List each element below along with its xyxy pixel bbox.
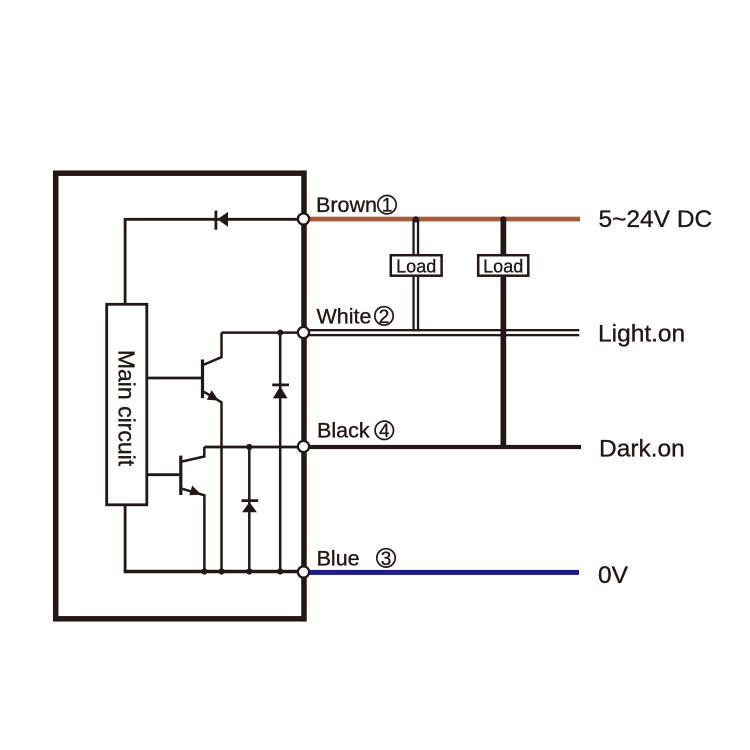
diode D1 triangle (pointing up)	[273, 386, 288, 398]
wire: load 1 lead (double line) left stroke lower	[412, 277, 414, 331]
transistor Q1 base bar	[201, 360, 204, 399]
wire: Q2 collector to Black terminal	[204, 446, 303, 449]
wire: black external Dark.on	[304, 445, 582, 449]
junction dot on 0V rail at D2	[246, 568, 252, 574]
junction dot on 0V rail at Q1 emitter	[218, 568, 224, 574]
outer sensor enclosure box	[56, 173, 304, 619]
wire: load 1 lead (double line) right stroke lower	[417, 277, 419, 331]
diode D2 triangle (pointing up)	[242, 502, 257, 512]
svg-text:Light.on: Light.on	[598, 321, 685, 348]
terminal 1 (Brown)	[298, 213, 309, 224]
wire: brown external 5-24V DC	[304, 217, 581, 222]
load L2 box	[478, 255, 528, 276]
load L1 box	[391, 255, 442, 276]
svg-text:Main circuit: Main circuit	[114, 350, 140, 467]
diode D1 wire (White output to 0V rail)	[279, 333, 282, 572]
terminal 2 (White)	[298, 327, 309, 338]
junction dot on 0V rail at Q2 emitter	[201, 568, 207, 574]
terminal 3 (Blue)	[298, 566, 309, 577]
wire: load 2 lead lower	[501, 277, 507, 447]
svg-text:0V: 0V	[598, 562, 629, 589]
junction dot on 0V rail at D1	[277, 568, 283, 574]
transistor Q2 base bar	[179, 456, 182, 495]
junction dot on black line at D2	[246, 444, 252, 450]
svg-text:White: White	[317, 304, 372, 328]
diode D3 triangle (pointing left)	[217, 212, 228, 227]
wire: load 1 lead (double line) left stroke upper	[412, 219, 414, 254]
transistor Q2 emitter	[182, 489, 204, 572]
pin number 3 circle	[377, 549, 395, 567]
transistor Q1 emitter arrow	[207, 390, 219, 400]
svg-text:Blue: Blue	[317, 546, 360, 570]
diode D1 cathode bar	[272, 383, 289, 386]
transistor Q1 base lead	[147, 377, 201, 380]
svg-text:Brown: Brown	[316, 193, 377, 217]
svg-text:3: 3	[381, 549, 392, 570]
svg-text:Load: Load	[483, 257, 523, 277]
wire: Q1 collector to White terminal	[222, 331, 304, 334]
wire: load 1 lead (double line) right stroke upper	[417, 219, 419, 254]
wire: white external Light.on (double line) lower stroke	[309, 334, 579, 336]
transistor Q1 emitter	[204, 392, 222, 572]
wire: blue external 0V	[304, 570, 580, 575]
wire: vertical riser from main circuit top to V+ rail	[124, 219, 127, 304]
junction dot on white line at D1	[277, 330, 283, 336]
pin number 2 circle	[375, 307, 393, 325]
transistor Q1 collector	[204, 333, 222, 365]
svg-text:2: 2	[379, 307, 390, 328]
wire: internal V+ rail to Brown terminal	[124, 218, 304, 221]
transistor Q2 base lead	[147, 473, 179, 476]
svg-text:Black: Black	[317, 419, 370, 443]
diode D2 wire (Black output to 0V rail)	[248, 447, 251, 572]
wire: load 2 lead upper	[501, 219, 507, 254]
pin number 1 circle	[378, 196, 396, 214]
svg-text:5~24V DC: 5~24V DC	[599, 206, 713, 233]
pin number 4 circle	[375, 421, 393, 439]
wire: white external Light.on (double line) upper stroke	[309, 329, 579, 331]
svg-text:4: 4	[379, 421, 390, 442]
terminal 4 (Black)	[298, 441, 309, 452]
svg-text:1: 1	[382, 196, 393, 217]
wire: internal 0V bottom rail to Blue terminal	[124, 570, 304, 574]
diode D2 cathode bar	[242, 499, 259, 502]
junction dot load 1 on brown wire	[413, 216, 419, 222]
diode D3 (reverse polarity protection) cathode bar	[214, 211, 217, 230]
transistor Q2 collector	[182, 447, 204, 462]
svg-text:Load: Load	[396, 257, 436, 277]
svg-text:Dark.on: Dark.on	[599, 436, 685, 463]
wire: vertical from main circuit bottom to 0V rail	[124, 505, 127, 572]
junction dot load 2 on brown wire	[500, 216, 506, 222]
main circuit block	[107, 304, 147, 505]
transistor Q2 emitter arrow	[189, 486, 201, 496]
